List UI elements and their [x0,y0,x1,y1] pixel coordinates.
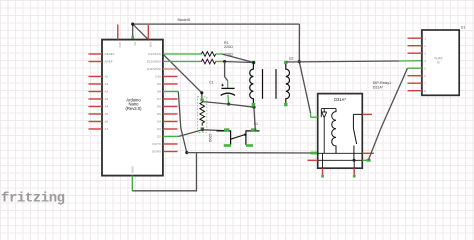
svg-text:D10: D10 [155,75,161,79]
label R3 220 ohm rotated [208,134,212,143]
pin D8 [157,90,161,94]
node U2 primary top [252,61,255,64]
pin A4 [89,105,109,109]
node R2 junction [223,60,226,63]
pin D10 [155,75,177,79]
svg-text:7: 7 [424,81,426,85]
pin A0 [89,75,109,79]
label Bauteil1 [178,18,191,22]
wire long rail to relay [187,152,318,155]
pin A3 [89,97,109,101]
pin A6 [89,120,109,124]
pin D4 [157,120,177,124]
svg-text:D13/SCK: D13/SCK [148,52,161,56]
wire drop to Arduino 5V top pin [131,24,134,39]
diode inside relay [322,109,327,154]
svg-text:D8: D8 [157,90,161,94]
svg-text:4: 4 [424,59,426,63]
svg-text:VIN: VIN [149,42,153,47]
svg-text:A5: A5 [105,112,109,116]
node bendpoint above R3 [200,91,203,94]
pin relay bottom left [321,168,324,177]
relay U4 D31A body [318,94,363,169]
pin U1 3 [408,51,427,55]
pin U1 5 [408,66,427,70]
svg-text:D0/RX: D0/RX [152,150,161,154]
pin D9 [157,82,177,86]
svg-text:A1: A1 [105,82,109,86]
node junction on U2-U1 net [298,60,301,63]
pin D13/SCK [148,52,161,56]
wire top drop to U2 node [298,24,300,62]
coil inside relay [332,109,336,154]
wire U1 pin5 to relay [368,68,407,160]
pin D6 [157,105,177,109]
wire long diagonal from node to R3 top [133,24,202,99]
wire D2 to R3 bottom [163,130,203,137]
wire diagonal node to relay coil pin [299,62,310,117]
wire U2 primary bottom to S1 [254,105,256,131]
svg-text:D9: D9 [157,82,161,86]
svg-text:Bauteil1: Bauteil1 [178,18,191,22]
pin 5V top [133,42,137,47]
label DIP-Relay1 D31A [373,81,391,90]
svg-text:D2: D2 [157,135,161,139]
svg-text:fritzing: fritzing [1,191,65,207]
pin U1 4 [424,59,426,63]
wire D12 to R2 [163,61,202,63]
pin relay right bottom connected [362,159,370,162]
wire R1 to U2 primary top [222,54,254,63]
pin U1 8 [408,89,427,93]
pin relay coil left [310,116,317,118]
wire GND bottom drop [132,153,196,191]
svg-text:D6: D6 [157,105,161,109]
pin GND bottom [131,165,135,173]
wire C1 node to primary-bottom drop [229,104,254,107]
node relay rail [353,159,356,162]
svg-text:3: 3 [424,51,426,55]
label U2 [289,57,294,61]
pin relay bottom right [353,168,356,177]
wire R2 node to U2 primary top [225,62,254,63]
pin A1 [89,82,109,86]
resistor R1 [201,52,222,57]
node rail bendpoint [185,151,188,154]
svg-text:D1/TX: D1/TX [152,142,161,146]
pin relay right middle [362,152,374,154]
pin U1 6 [408,74,427,78]
svg-text:AREF: AREF [105,60,113,64]
capacitor C1 [221,84,235,104]
wire Bauteil1 top horizontal [133,23,300,25]
pin D5 [157,112,177,116]
svg-text:U2: U2 [289,57,294,61]
node below C1 [227,103,230,106]
svg-text:5: 5 [424,66,426,70]
fritzing logo [1,191,65,207]
resistor R2 [201,59,224,64]
pin A7 [89,127,109,131]
node R3 bottom junction [201,128,204,131]
svg-text:6: 6 [424,74,426,78]
label C1 [209,81,214,85]
svg-text:RESET: RESET [105,52,115,56]
pin D11/MOSI [147,67,178,71]
resistor R3 vertical with selection dashes [197,97,206,133]
svg-text:A2: A2 [105,90,109,94]
node junction at top wire [131,23,134,26]
pin 3V3 top [118,25,122,48]
label S1 [254,122,258,126]
svg-text:2: 2 [424,44,426,48]
pin VIN top [148,25,152,47]
relay switch contact [353,114,362,160]
pin U1 1 [408,36,427,40]
svg-text:8: 8 [424,89,426,93]
label R2 220 ohm [224,52,233,56]
svg-text:(Rev3.0): (Rev3.0) [125,106,142,111]
pin A2 [89,90,109,94]
svg-text:D12/MISO: D12/MISO [147,60,162,64]
svg-text:D4: D4 [157,120,161,124]
svg-text:U1: U1 [461,26,466,30]
wire U2 secondary to U1 pin4 [286,61,422,62]
IC U3 Arduino Nano body [102,40,163,176]
wire D13 to R1 [163,53,202,55]
svg-text:C1: C1 [209,81,214,85]
pin U1 2 [408,44,427,48]
svg-text:A4: A4 [105,105,109,109]
relay internal rails [318,109,363,169]
IC U1 RJ45 body [422,30,459,95]
svg-text:D31A*: D31A* [373,85,384,89]
transformer U2 [250,61,290,107]
svg-text:D5: D5 [157,112,161,116]
svg-text:1: 1 [424,36,426,40]
pin D0/RX [152,150,177,154]
pin AREF [89,60,113,64]
svg-text:D11/MOSI: D11/MOSI [147,67,161,71]
wire D8 down to GND rail [163,92,187,153]
wire R3 bottom to switch S1 [203,130,231,131]
wire node down to C1 plus [225,62,228,89]
pin D3 [157,127,177,131]
label U1 [461,26,466,30]
pin D12/MISO [147,60,162,64]
svg-text:GND: GND [131,165,135,173]
pin D7 [157,97,177,101]
svg-text:3V3: 3V3 [118,42,122,48]
svg-text:D31A*: D31A* [334,97,346,102]
pin relay right top [362,113,372,115]
pin RESET [89,52,115,56]
label R1 220 ohm [224,41,233,49]
pin U1 7 [408,81,427,85]
pin A5 [89,112,109,116]
switch S1 [217,128,260,146]
pin D1/TX [152,142,177,146]
svg-text:A7: A7 [105,127,109,131]
svg-text:A6: A6 [105,120,109,124]
node on primary drop [252,106,255,109]
svg-text:D3: D3 [157,127,161,131]
pin D2 [157,135,161,139]
svg-text:A3: A3 [105,97,109,101]
wire C1 node to R3 top pad [202,102,229,105]
svg-text:220Ω: 220Ω [208,134,212,143]
pin relay left unconnected [307,159,317,161]
svg-text:D7: D7 [157,97,161,101]
svg-text:A0: A0 [105,75,109,79]
svg-text:220Ω: 220Ω [224,45,233,49]
svg-text:DIP-Relay1: DIP-Relay1 [373,81,391,85]
